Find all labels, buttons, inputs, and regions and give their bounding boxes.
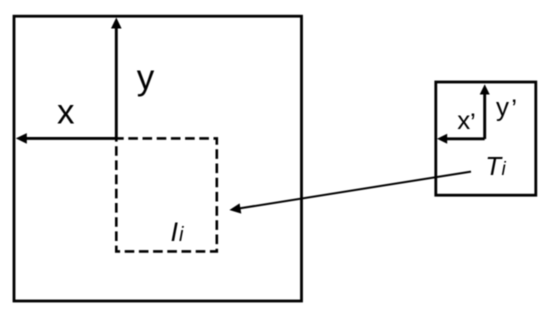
svg-text:y: y bbox=[496, 92, 509, 122]
svg-text:’: ’ bbox=[511, 94, 517, 124]
svg-text:i: i bbox=[179, 224, 184, 246]
svg-text:x: x bbox=[457, 105, 470, 135]
svg-text:’: ’ bbox=[470, 108, 476, 138]
svg-text:x: x bbox=[57, 93, 75, 132]
svg-text:I: I bbox=[171, 217, 179, 247]
svg-text:i: i bbox=[502, 159, 507, 180]
svg-text:y: y bbox=[137, 58, 155, 97]
